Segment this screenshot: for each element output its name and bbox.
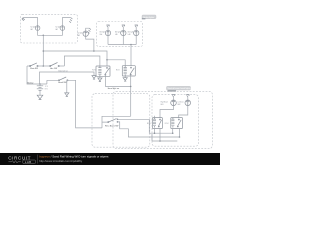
svg-text:Head SW: Head SW: [58, 82, 66, 84]
chassis flag above LA4: [107, 27, 109, 31]
wire: acc switch to RLY1 coil: [64, 56, 100, 66]
chassis flag above HB1: [173, 96, 175, 100]
svg-text:RLY4: RLY4: [165, 123, 169, 125]
chassis flag F1: [22, 18, 25, 21]
chassis flag above HB2: [187, 96, 189, 100]
wire: bottom return bus: [152, 134, 177, 141]
wire: SW3 output down to dimmer switch: [68, 80, 102, 128]
svg-text:RLY3: RLY3: [147, 123, 151, 125]
junction: [43, 35, 45, 37]
svg-text:High Beam: High Beam: [161, 101, 169, 103]
junction: [130, 44, 132, 46]
module box: tail lights (top-left dashed box): [20, 14, 77, 43]
wire: feed into dimmer switch: [102, 116, 131, 128]
module box: sealed beams (inner): [152, 95, 199, 147]
svg-text:BT1: BT1: [45, 89, 48, 91]
wire: brake bus drop to relay RLY2 contact: [130, 45, 132, 66]
footer divider: [36, 155, 39, 164]
svg-text:Main SW: Main SW: [30, 68, 38, 70]
wire: RLY3 stubs: [155, 116, 161, 141]
lamp LA5: [121, 30, 126, 35]
ground (battery): [37, 95, 43, 99]
wire: LA1 bottom: [38, 30, 63, 35]
wire: RLY1 contact out: [105, 76, 130, 86]
switch SW4 (hi/lo dimmer): [108, 119, 118, 123]
svg-text:12 V: 12 V: [45, 86, 48, 88]
ground (SW3): [65, 93, 69, 97]
chassis flag above LA6: [135, 27, 137, 31]
chassis flag F3: [88, 28, 91, 33]
wire: LA3 top to chassis: [86, 28, 90, 31]
switch SW1 (main): [27, 65, 30, 67]
svg-text:http://www.circuitlab.com/c/pd: http://www.circuitlab.com/c/pddd6y: [39, 159, 83, 163]
svg-text:Head light sw: Head light sw: [108, 87, 120, 90]
switch SW3 (head light): [47, 80, 59, 84]
wire: top bus of tail lamp LA1: [23, 18, 38, 26]
lamp HB2 (low beam): [185, 100, 191, 106]
battery BT1: [39, 84, 41, 86]
module tag: brake lights: [142, 15, 156, 19]
module box: brake lights (top-middle dashed box): [97, 22, 143, 47]
module box: head light circuit (outer): [113, 91, 212, 148]
junction: [43, 65, 45, 67]
ground (rail): [92, 76, 96, 80]
junction: [39, 83, 41, 85]
lamp LA6: [134, 30, 139, 35]
svg-text:Sealed beam head lights: Sealed beam head lights: [168, 87, 191, 90]
ground (RLY1 coil): [99, 76, 101, 78]
wire: LA3 bottom feed: [86, 36, 94, 51]
ground (RLY2 coil): [124, 76, 126, 78]
junction: [106, 59, 108, 61]
svg-text:HB1: HB1: [161, 104, 164, 106]
wire: HB2 to RLY4: [179, 106, 188, 118]
wire: SW3 right to chassis ground: [66, 81, 68, 93]
junction: [93, 50, 95, 52]
wire: RLY4 stubs: [173, 129, 180, 138]
lamp LA3 (license plate light, middle): [83, 31, 88, 36]
svg-text:LAB: LAB: [25, 160, 32, 164]
svg-text:Acc SW: Acc SW: [50, 67, 57, 70]
svg-text:HB2: HB2: [178, 104, 181, 106]
svg-text:RLY2: RLY2: [116, 70, 120, 72]
footer bar: [0, 153, 220, 165]
lamp HB1 (high beam): [171, 100, 177, 106]
svg-text:RLY1: RLY1: [92, 70, 96, 72]
wire: branch to RLY2 coil: [107, 60, 125, 66]
wire: brake feed rail y71.5: [40, 72, 95, 84]
svg-text:Battery: Battery: [27, 82, 33, 85]
svg-text:Hi/Lo Beam SW: Hi/Lo Beam SW: [105, 126, 119, 128]
wire: net bus y51 to relay RLY1: [43, 51, 107, 66]
lamp LA1: [35, 26, 40, 31]
switch SW2 (acc): [50, 63, 60, 67]
wire: battery positive rail to SW1: [27, 66, 47, 84]
lamp LA2: [60, 26, 65, 31]
svg-text:Lo Beam: Lo Beam: [178, 101, 185, 103]
wire: acc switch right stub: [59, 65, 64, 67]
wire: dimmer hi contact to RLY3: [118, 119, 173, 133]
wire: main switch output bus to acc switch: [38, 65, 50, 67]
wire: HB1 to RLY3: [160, 106, 174, 118]
wire: drop from tail light bus down to switch bus: [42, 35, 44, 66]
wire: RLY2 contact down into headlight module: [130, 76, 132, 116]
chassis flag above LA5: [122, 27, 124, 31]
wire: LA2 top to chassis: [62, 18, 70, 26]
module box: dimmer switch area: [92, 94, 150, 148]
lamp LA4: [105, 30, 110, 35]
module tag: sealed beam head lights: [167, 86, 191, 91]
wire: dimmer lo contact to RLY4: [118, 122, 180, 137]
junction: [43, 50, 45, 52]
junction: [130, 86, 132, 88]
wire: brake lamp bottom bus: [108, 36, 136, 45]
chassis flag F2: [69, 18, 72, 23]
